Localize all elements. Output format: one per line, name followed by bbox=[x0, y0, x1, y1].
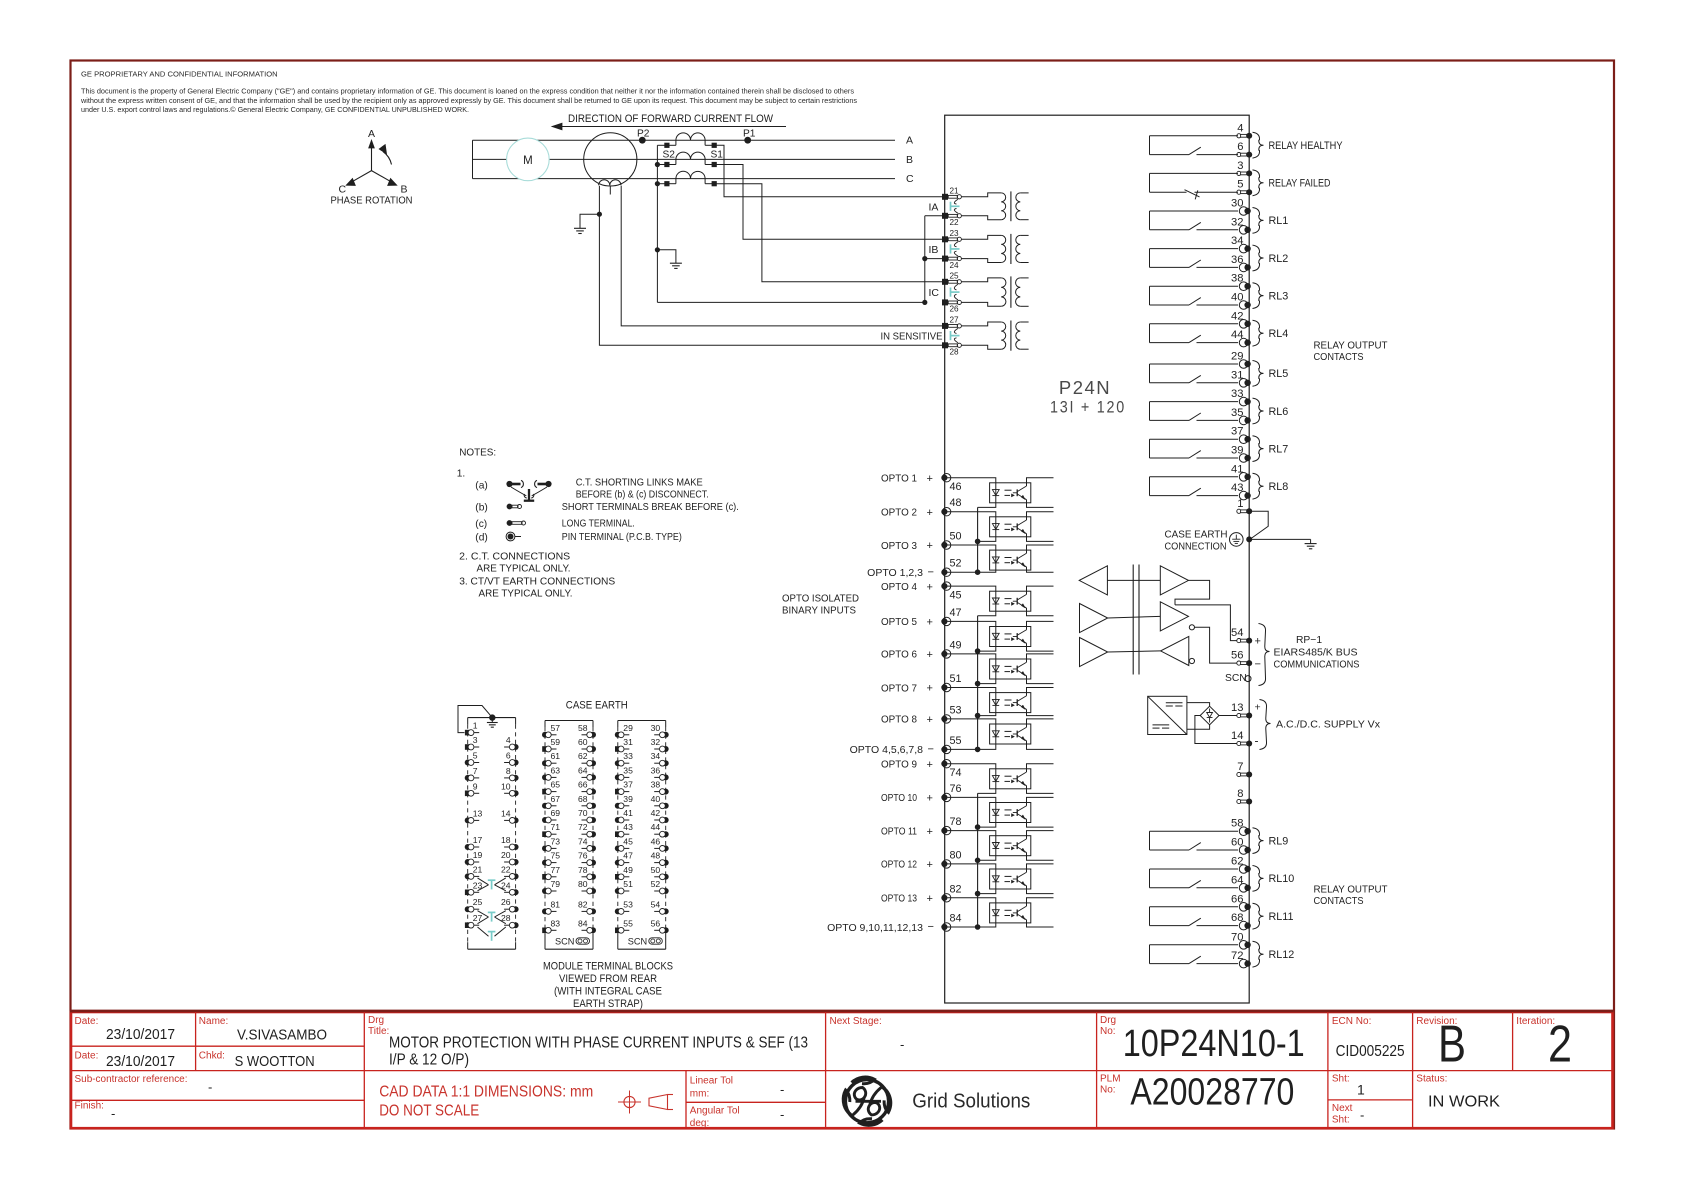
svg-text:IC: IC bbox=[929, 287, 940, 299]
RP-1 comms label bbox=[1259, 624, 1360, 686]
svg-text:78: 78 bbox=[950, 816, 962, 828]
svg-text:DIRECTION OF FORWARD CURREN: DIRECTION OF FORWARD CURRENT FLOW bbox=[568, 113, 774, 125]
svg-text:40: 40 bbox=[651, 794, 661, 804]
optocoupler OPTO 1 (terminal 46) bbox=[881, 473, 1054, 508]
module terminal block 1 bbox=[465, 718, 519, 950]
svg-text:ECN No:: ECN No: bbox=[1332, 1016, 1371, 1027]
opto isolated binary inputs label bbox=[782, 594, 859, 617]
svg-text:(WITH INTEGRAL CASE: (WITH INTEGRAL CASE bbox=[554, 986, 662, 998]
svg-text:B: B bbox=[906, 154, 913, 166]
terminal 21 bbox=[942, 186, 961, 199]
terminal 7 bbox=[1237, 761, 1252, 778]
svg-text:13: 13 bbox=[473, 808, 483, 818]
A.C./D.C. supply label bbox=[1260, 700, 1381, 750]
title block: status cell bbox=[1416, 1074, 1501, 1111]
svg-text:50: 50 bbox=[651, 865, 661, 875]
svg-text:37: 37 bbox=[623, 780, 633, 790]
svg-text:56: 56 bbox=[1231, 650, 1243, 662]
wire bridge to terminal 14 bbox=[1195, 716, 1237, 744]
svg-text:8: 8 bbox=[506, 766, 511, 776]
svg-text:OPTO 13: OPTO 13 bbox=[881, 893, 917, 905]
direction of forward current flow arrow bbox=[552, 113, 786, 130]
svg-text:RELAY OUTPUT: RELAY OUTPUT bbox=[1314, 885, 1389, 896]
svg-text:34: 34 bbox=[1231, 235, 1243, 247]
svg-text:63: 63 bbox=[551, 765, 561, 775]
svg-text:Finish:: Finish: bbox=[75, 1101, 104, 1112]
phase rotation symbol bbox=[331, 128, 413, 207]
svg-text:RL12: RL12 bbox=[1269, 949, 1295, 961]
terminal 14 bbox=[1231, 730, 1258, 748]
svg-text:72: 72 bbox=[1231, 950, 1243, 962]
svg-text:Chkd:: Chkd: bbox=[199, 1051, 225, 1062]
svg-text:A.C./D.C. SUPPLY Vx: A.C./D.C. SUPPLY Vx bbox=[1276, 719, 1381, 730]
svg-text:OPTO 1,2,3: OPTO 1,2,3 bbox=[867, 567, 923, 579]
svg-text:82: 82 bbox=[950, 883, 962, 895]
svg-text:Next Stage:: Next Stage: bbox=[830, 1016, 882, 1027]
svg-text:38: 38 bbox=[651, 780, 661, 790]
terminal 26 bbox=[942, 299, 961, 313]
svg-text:+: + bbox=[927, 893, 933, 905]
svg-text:-: - bbox=[1255, 734, 1259, 748]
transformer IB bbox=[929, 234, 1029, 264]
svg-text:49: 49 bbox=[623, 865, 633, 875]
svg-text:34: 34 bbox=[651, 751, 661, 761]
svg-text:SCN: SCN bbox=[1225, 673, 1247, 684]
svg-text:36: 36 bbox=[651, 765, 661, 775]
svg-text:RL5: RL5 bbox=[1269, 368, 1289, 380]
svg-text:OPTO 11: OPTO 11 bbox=[881, 825, 917, 837]
svg-text:72: 72 bbox=[578, 822, 588, 832]
svg-text:Name:: Name: bbox=[199, 1016, 228, 1027]
svg-text:70: 70 bbox=[1231, 931, 1243, 943]
wire comms U5/U6 to terminal 56 bbox=[1189, 625, 1236, 664]
svg-text:P24N: P24N bbox=[1059, 377, 1111, 398]
svg-text:CASE EARTH: CASE EARTH bbox=[566, 700, 628, 712]
svg-text:52: 52 bbox=[950, 558, 962, 570]
relay contact RL3 (terminals 38,40) bbox=[1150, 273, 1289, 310]
relay contact RL12 (terminals 70,72) bbox=[1150, 931, 1295, 968]
svg-text:+: + bbox=[927, 581, 933, 593]
svg-text:44: 44 bbox=[1231, 329, 1243, 341]
svg-text:61: 61 bbox=[551, 751, 561, 761]
svg-text:OPTO 4: OPTO 4 bbox=[881, 581, 917, 593]
svg-text:P2: P2 bbox=[637, 129, 650, 140]
wire psu to bridge bottom bbox=[1187, 725, 1210, 730]
svg-text:Drg: Drg bbox=[368, 1015, 384, 1026]
svg-text:-: - bbox=[111, 1106, 115, 1121]
wire S1-B to terminal 23 bbox=[714, 165, 945, 240]
terminal 54 bbox=[1231, 627, 1261, 647]
transformer IN bbox=[881, 321, 1029, 351]
svg-text:75: 75 bbox=[551, 851, 561, 861]
svg-text:4: 4 bbox=[506, 735, 511, 745]
svg-text:SHORT TERMINALS BREAK BEFORE (: SHORT TERMINALS BREAK BEFORE (c). bbox=[562, 502, 739, 513]
svg-text:21: 21 bbox=[950, 186, 960, 195]
svg-text:OPTO 12: OPTO 12 bbox=[881, 859, 917, 871]
svg-text:V.SIVASAMBO: V.SIVASAMBO bbox=[237, 1028, 327, 1044]
svg-text:IB: IB bbox=[929, 244, 939, 256]
svg-text:25: 25 bbox=[950, 271, 960, 280]
note symbol (c) long terminal bbox=[507, 520, 526, 526]
svg-text:38: 38 bbox=[1231, 273, 1243, 285]
core-balance CT (SEF) bbox=[584, 133, 637, 195]
wire S1-A to terminal 21 bbox=[714, 145, 945, 197]
svg-text:A20028770: A20028770 bbox=[1130, 1072, 1294, 1114]
svg-text:49: 49 bbox=[950, 639, 962, 651]
svg-text:MODULE TERMINAL BLOCKS: MODULE TERMINAL BLOCKS bbox=[543, 961, 673, 973]
terminal 1 bbox=[1237, 498, 1252, 515]
proprietary notice text bbox=[80, 70, 858, 115]
svg-text:RELAY FAILED: RELAY FAILED bbox=[1269, 178, 1331, 190]
svg-text:CONNECTION: CONNECTION bbox=[1165, 541, 1227, 552]
relay output contacts label (top) bbox=[1314, 341, 1389, 364]
terminal 28 bbox=[942, 342, 961, 356]
svg-text:7: 7 bbox=[1237, 761, 1243, 773]
optocoupler OPTO 2 (terminal 48) bbox=[881, 497, 1054, 541]
notes text bbox=[457, 448, 739, 600]
svg-text:82: 82 bbox=[578, 899, 588, 909]
svg-text:1.: 1. bbox=[457, 469, 466, 480]
svg-text:Date:: Date: bbox=[75, 1051, 99, 1062]
relay contact RL5 (terminals 29,31) bbox=[1150, 351, 1289, 388]
relay case P24N (box) bbox=[945, 115, 1249, 1003]
svg-text:27: 27 bbox=[950, 316, 960, 325]
svg-text:55: 55 bbox=[623, 918, 633, 928]
relay output contacts label (bottom) bbox=[1314, 885, 1389, 908]
svg-text:(c): (c) bbox=[475, 519, 487, 530]
buffer U2 (tx left) bbox=[1080, 604, 1161, 633]
svg-text:without the express written co: without the express written consent of G… bbox=[80, 98, 858, 105]
svg-text:1: 1 bbox=[473, 721, 478, 731]
svg-text:43: 43 bbox=[1231, 482, 1243, 494]
svg-text:30: 30 bbox=[651, 723, 661, 733]
svg-text:22: 22 bbox=[501, 864, 511, 874]
module terminal block 2 bbox=[542, 721, 596, 950]
svg-text:+: + bbox=[1255, 636, 1261, 648]
node P24N model label bbox=[1050, 377, 1126, 417]
svg-text:RL11: RL11 bbox=[1269, 911, 1294, 923]
note symbol (a) shorting link bbox=[506, 480, 551, 500]
svg-text:-: - bbox=[780, 1107, 784, 1122]
ground (case earth) bbox=[1249, 539, 1316, 548]
svg-text:(d): (d) bbox=[475, 533, 487, 544]
svg-text:6: 6 bbox=[1237, 141, 1243, 153]
title block: sht cell bbox=[1332, 1074, 1365, 1126]
svg-text:3: 3 bbox=[473, 735, 478, 745]
svg-text:3: 3 bbox=[1237, 160, 1243, 172]
svg-text:RELAY OUTPUT: RELAY OUTPUT bbox=[1314, 341, 1389, 352]
svg-text:RP−1: RP−1 bbox=[1296, 635, 1322, 646]
svg-text:Sub-contractor reference:: Sub-contractor reference: bbox=[75, 1074, 188, 1085]
module terminal blocks caption bbox=[543, 961, 673, 1011]
svg-text:84: 84 bbox=[950, 913, 962, 925]
optocoupler OPTO 3 (terminal 50) bbox=[881, 531, 1054, 573]
svg-text:VIEWED FROM REAR: VIEWED FROM REAR bbox=[559, 973, 657, 985]
buffer U3 (tx left) bbox=[1080, 638, 1161, 667]
svg-text:No:: No: bbox=[1100, 1085, 1116, 1096]
svg-text:66: 66 bbox=[578, 780, 588, 790]
terminal 56 bbox=[1231, 650, 1261, 671]
wire terminals 22/24/26 common bbox=[922, 216, 945, 305]
svg-text:3. CT/VT EARTH CONNECTIONS: 3. CT/VT EARTH CONNECTIONS bbox=[459, 577, 615, 588]
svg-text:(a): (a) bbox=[475, 481, 487, 492]
svg-text:Linear Tol: Linear Tol bbox=[690, 1076, 733, 1087]
svg-text:30: 30 bbox=[1231, 198, 1243, 210]
svg-text:under U.S. export control laws: under U.S. export control laws and regul… bbox=[81, 106, 469, 114]
buffer U4 (right top) bbox=[1160, 566, 1188, 595]
svg-text:M: M bbox=[523, 155, 533, 167]
wire phase A bbox=[473, 135, 914, 147]
svg-text:6: 6 bbox=[506, 751, 511, 761]
svg-text:41: 41 bbox=[1231, 463, 1243, 475]
svg-text:14: 14 bbox=[501, 808, 511, 818]
svg-text:−: − bbox=[928, 566, 934, 578]
svg-text:53: 53 bbox=[950, 704, 962, 716]
svg-text:37: 37 bbox=[1231, 426, 1243, 438]
svg-text:17: 17 bbox=[473, 835, 483, 845]
optocoupler OPTO 5 (terminal 47) bbox=[881, 607, 1054, 651]
svg-text:78: 78 bbox=[578, 865, 588, 875]
svg-text:74: 74 bbox=[578, 836, 588, 846]
svg-text:OPTO 1: OPTO 1 bbox=[881, 473, 917, 485]
svg-text:67: 67 bbox=[551, 794, 561, 804]
svg-text:81: 81 bbox=[551, 899, 561, 909]
svg-text:OPTO 6: OPTO 6 bbox=[881, 649, 917, 661]
terminal 25 bbox=[942, 271, 961, 284]
svg-text:43: 43 bbox=[623, 822, 633, 832]
svg-text:25: 25 bbox=[473, 897, 483, 907]
svg-text:+: + bbox=[927, 507, 933, 519]
svg-text:Date:: Date: bbox=[75, 1016, 99, 1027]
svg-text:CASE EARTH: CASE EARTH bbox=[1165, 529, 1228, 540]
svg-text:+: + bbox=[927, 859, 933, 871]
svg-text:OPTO 7: OPTO 7 bbox=[881, 682, 917, 694]
svg-text:EIARS485/K BUS: EIARS485/K BUS bbox=[1274, 648, 1358, 659]
svg-text:60: 60 bbox=[578, 737, 588, 747]
buffer U6 (right bottom, rx) bbox=[1161, 636, 1189, 665]
svg-text:29: 29 bbox=[623, 723, 633, 733]
svg-text:69: 69 bbox=[551, 808, 561, 818]
svg-text:OPTO 8: OPTO 8 bbox=[881, 714, 917, 726]
svg-text:OPTO 4,5,6,7,8: OPTO 4,5,6,7,8 bbox=[850, 744, 924, 756]
svg-text:SCN: SCN bbox=[555, 937, 574, 947]
title block: ecn cell bbox=[1332, 1016, 1405, 1060]
optocoupler OPTO 7 (terminal 51) bbox=[881, 673, 1054, 716]
svg-text:I/P & 12 O/P): I/P & 12 O/P) bbox=[389, 1052, 469, 1069]
svg-text:+: + bbox=[927, 683, 933, 695]
svg-text:29: 29 bbox=[1231, 351, 1243, 363]
terminal 23 bbox=[942, 229, 961, 242]
svg-text:CONTACTS: CONTACTS bbox=[1314, 352, 1364, 363]
svg-text:2: 2 bbox=[1548, 1016, 1572, 1074]
terminal 24 bbox=[942, 256, 961, 270]
opto minus bus OPTO 4,5,6,7,8 (terminal 55) bbox=[850, 616, 981, 756]
svg-text:33: 33 bbox=[1231, 388, 1243, 400]
svg-text:39: 39 bbox=[1231, 445, 1243, 457]
svg-text:OPTO 5: OPTO 5 bbox=[881, 616, 917, 628]
svg-text:5: 5 bbox=[473, 751, 478, 761]
svg-text:48: 48 bbox=[651, 851, 661, 861]
svg-text:EARTH STRAP): EARTH STRAP) bbox=[573, 998, 643, 1010]
relay contact RL6 (terminals 33,35) bbox=[1150, 388, 1289, 425]
svg-text:46: 46 bbox=[950, 481, 962, 493]
svg-text:COMMUNICATIONS: COMMUNICATIONS bbox=[1274, 660, 1360, 671]
CT phase B bbox=[664, 152, 717, 167]
svg-text:No:: No: bbox=[1100, 1026, 1116, 1037]
svg-text:−: − bbox=[928, 921, 934, 933]
svg-text:76: 76 bbox=[578, 851, 588, 861]
svg-text:BINARY INPUTS: BINARY INPUTS bbox=[782, 605, 856, 616]
shorting link 27-28 bbox=[951, 328, 960, 342]
svg-text:51: 51 bbox=[950, 673, 962, 685]
svg-text:7: 7 bbox=[473, 766, 478, 776]
svg-text:Title:: Title: bbox=[368, 1026, 389, 1037]
svg-text:64: 64 bbox=[578, 765, 588, 775]
svg-text:41: 41 bbox=[623, 808, 633, 818]
bridge rectifier bbox=[1200, 706, 1219, 725]
svg-text:31: 31 bbox=[623, 737, 633, 747]
svg-text:A: A bbox=[368, 128, 375, 140]
svg-text:28: 28 bbox=[950, 348, 960, 357]
node bus left cap bbox=[472, 140, 474, 178]
svg-text:(b): (b) bbox=[475, 503, 487, 514]
svg-text:LONG TERMINAL.: LONG TERMINAL. bbox=[562, 519, 635, 530]
title block: drg title cell bbox=[368, 1015, 808, 1120]
svg-text:35: 35 bbox=[623, 765, 633, 775]
svg-text:-: - bbox=[900, 1037, 904, 1052]
optocoupler OPTO 10 (terminal 76) bbox=[881, 783, 1054, 827]
buffer U5 (right middle) bbox=[1160, 602, 1188, 631]
title block: next stage cell bbox=[830, 1016, 905, 1052]
svg-text:S WOOTTON: S WOOTTON bbox=[235, 1054, 315, 1070]
terminal 13 bbox=[1231, 702, 1261, 719]
case earth title bbox=[566, 700, 628, 712]
svg-text:35: 35 bbox=[1231, 407, 1243, 419]
svg-text:19: 19 bbox=[473, 850, 483, 860]
shorting link 21-22 bbox=[951, 199, 960, 213]
optocoupler OPTO 6 (terminal 49) bbox=[881, 639, 1054, 683]
svg-text:OPTO ISOLATED: OPTO ISOLATED bbox=[782, 594, 859, 605]
svg-text:23/10/2017: 23/10/2017 bbox=[106, 1054, 175, 1070]
svg-text:A: A bbox=[906, 135, 913, 147]
optocoupler OPTO 12 (terminal 80) bbox=[881, 849, 1054, 893]
relay contact RELAY FAILED (terminals 3,5) bbox=[1150, 160, 1331, 200]
svg-text:Angular Tol: Angular Tol bbox=[690, 1106, 740, 1117]
svg-text:OPTO 3: OPTO 3 bbox=[881, 540, 917, 552]
svg-text:65: 65 bbox=[551, 780, 561, 790]
svg-text:S2: S2 bbox=[663, 149, 676, 160]
svg-text:RL10: RL10 bbox=[1269, 873, 1295, 885]
svg-text:46: 46 bbox=[651, 836, 661, 846]
svg-text:80: 80 bbox=[578, 879, 588, 889]
svg-text:OPTO 9,10,11,12,13: OPTO 9,10,11,12,13 bbox=[827, 922, 923, 934]
wire phase C bbox=[473, 173, 915, 185]
CT phase C bbox=[664, 171, 717, 186]
svg-text:31: 31 bbox=[1231, 369, 1243, 381]
svg-text:−: − bbox=[928, 744, 934, 756]
transformer IC bbox=[929, 276, 1029, 307]
svg-text:55: 55 bbox=[950, 735, 962, 747]
svg-text:mm:: mm: bbox=[690, 1089, 709, 1100]
svg-text:26: 26 bbox=[950, 305, 960, 314]
svg-text:RL8: RL8 bbox=[1269, 481, 1289, 493]
svg-text:BEFORE (b) & (c) DISCONNECT.: BEFORE (b) & (c) DISCONNECT. bbox=[576, 490, 709, 501]
svg-text:B: B bbox=[1438, 1016, 1466, 1074]
opto minus bus OPTO 1,2,3 (terminal 52) bbox=[867, 507, 980, 579]
svg-text:54: 54 bbox=[651, 899, 661, 909]
svg-text:14: 14 bbox=[1231, 730, 1243, 742]
svg-text:73: 73 bbox=[551, 836, 561, 846]
svg-text:58: 58 bbox=[1231, 818, 1243, 830]
svg-text:IN SENSITIVE: IN SENSITIVE bbox=[881, 331, 943, 343]
svg-text:C: C bbox=[906, 173, 914, 185]
wire CBCT right lead to terminal 27 bbox=[621, 186, 945, 326]
svg-text:CONTACTS: CONTACTS bbox=[1314, 896, 1364, 907]
title block: date/name cells bbox=[75, 1016, 328, 1121]
title block grid bbox=[70, 1011, 1614, 1128]
svg-text:RL6: RL6 bbox=[1269, 406, 1289, 418]
relay contact RL4 (terminals 42,44) bbox=[1150, 310, 1289, 347]
svg-text:GE PROPRIETARY AND CONFIDENTIA: GE PROPRIETARY AND CONFIDENTIAL INFORMAT… bbox=[81, 70, 278, 79]
svg-text:PLM: PLM bbox=[1100, 1074, 1121, 1085]
svg-text:Drg: Drg bbox=[1100, 1015, 1116, 1026]
svg-text:SCN: SCN bbox=[628, 937, 647, 947]
title block: plm no cell bbox=[1100, 1072, 1294, 1114]
svg-text:RL9: RL9 bbox=[1269, 835, 1289, 847]
svg-text:This document is the property: This document is the property of General… bbox=[81, 89, 855, 96]
svg-text:68: 68 bbox=[1231, 912, 1243, 924]
svg-text:OPTO 2: OPTO 2 bbox=[881, 507, 917, 519]
svg-text:42: 42 bbox=[1231, 310, 1243, 322]
relay contact RL10 (terminals 62,64) bbox=[1150, 856, 1295, 893]
wire comms U4 output bbox=[1175, 580, 1210, 605]
svg-text:RELAY HEALTHY: RELAY HEALTHY bbox=[1269, 140, 1343, 152]
svg-text:RL3: RL3 bbox=[1269, 290, 1289, 302]
GE logo bbox=[843, 1077, 891, 1125]
title block: drg no cell bbox=[1100, 1015, 1305, 1065]
svg-text:5: 5 bbox=[1237, 179, 1243, 191]
wire bridge to terminal 13 bbox=[1219, 715, 1237, 717]
svg-text:52: 52 bbox=[651, 879, 661, 889]
wire S1-C to terminal 25 bbox=[714, 184, 945, 282]
svg-text:OPTO 10: OPTO 10 bbox=[881, 792, 917, 804]
power supply unit (dc/dc) bbox=[1148, 696, 1187, 734]
svg-text:24: 24 bbox=[950, 261, 960, 270]
svg-text:+: + bbox=[927, 473, 933, 485]
wire CBCT left lead to terminal 28 bbox=[597, 186, 945, 345]
ground (CBCT earth) bbox=[574, 214, 599, 233]
svg-text:CAD DATA 1:1 DIMENSIONS: mm: CAD DATA 1:1 DIMENSIONS: mm bbox=[379, 1084, 593, 1101]
relay contact RELAY HEALTHY (terminals 4,6) bbox=[1150, 122, 1343, 158]
svg-text:+: + bbox=[927, 759, 933, 771]
svg-text:60: 60 bbox=[1231, 837, 1243, 849]
svg-text:2. C.T. CONNECTIONS: 2. C.T. CONNECTIONS bbox=[459, 552, 570, 563]
svg-text:RL1: RL1 bbox=[1269, 215, 1289, 227]
svg-text:59: 59 bbox=[551, 737, 561, 747]
svg-text:26: 26 bbox=[501, 897, 511, 907]
wire S2 common bus bbox=[655, 145, 925, 302]
relay contact RL7 (terminals 37,39) bbox=[1150, 426, 1289, 463]
title block: tolerance cell bbox=[690, 1076, 785, 1130]
svg-text:47: 47 bbox=[950, 607, 962, 619]
svg-text:+: + bbox=[927, 649, 933, 661]
svg-text:33: 33 bbox=[623, 751, 633, 761]
svg-text:1: 1 bbox=[1237, 498, 1243, 510]
svg-text:RL4: RL4 bbox=[1269, 328, 1289, 340]
svg-text:20: 20 bbox=[501, 850, 511, 860]
opto minus bus OPTO 9,10,11,12,13 (terminal 84) bbox=[827, 793, 980, 933]
svg-text:ARE TYPICAL ONLY.: ARE TYPICAL ONLY. bbox=[477, 564, 571, 575]
